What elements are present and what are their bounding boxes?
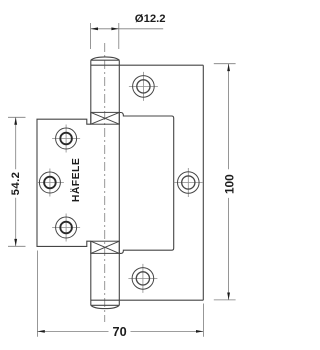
dimension 54.2 top arrow (14, 117, 17, 124)
right leaf outline (91, 65, 204, 300)
barrel bottom cap (91, 305, 120, 308)
dimension 70 right arrow (196, 330, 203, 333)
dimension 100 line (228, 64, 230, 300)
dimension 100 extension lines (214, 64, 236, 300)
left leaf hole middle (39, 172, 60, 193)
dimension 54.2 extension lines (8, 117, 26, 246)
dimension 100 bottom arrow (227, 293, 230, 300)
svg-text:70: 70 (113, 325, 127, 339)
svg-text:Ø12.2: Ø12.2 (135, 13, 166, 25)
left leaf hole top centerlines (52, 125, 80, 153)
left leaf outline (37, 119, 91, 246)
right leaf hole middle centerlines (174, 168, 203, 197)
barrel top cap (91, 57, 120, 60)
left leaf hole top (56, 128, 77, 149)
dimension 70 line (37, 330, 203, 332)
svg-text:54.2: 54.2 (10, 172, 22, 196)
left leaf hole bottom centerlines (52, 214, 80, 242)
dimension 70 extension lines (37, 251, 203, 337)
right leaf hole bottom (132, 268, 154, 290)
dimension diameter 12.2 right arrow (111, 27, 118, 30)
bottom knuckle section box (91, 241, 120, 253)
barrel left edge upper (90, 60, 92, 124)
dimension 54.2 bottom arrow (14, 239, 17, 246)
right leaf hole bottom centerlines (128, 264, 157, 293)
right leaf inner recess contour (119, 113, 173, 254)
dimension diameter 12.2 line (91, 28, 164, 30)
dimension 100 top arrow (227, 64, 230, 71)
dimension 54.2 line (15, 117, 17, 246)
svg-text:100: 100 (222, 174, 236, 194)
right leaf hole top centerlines (129, 72, 158, 101)
top knuckle section box (91, 112, 120, 124)
centerline of barrel (104, 43, 106, 322)
dimension 70 left arrow (37, 330, 44, 333)
left leaf hole middle centerlines (36, 169, 64, 197)
svg-text:HÄFELE: HÄFELE (69, 158, 82, 202)
left leaf hole bottom (56, 217, 77, 238)
right leaf hole top (133, 76, 155, 98)
right leaf hole middle (178, 172, 200, 194)
barrel left edge lower (90, 241, 92, 305)
barrel right edge (118, 60, 120, 305)
dimension diameter 12.2 left arrow (91, 27, 98, 30)
dimension diameter 12.2 extension lines (91, 23, 119, 49)
